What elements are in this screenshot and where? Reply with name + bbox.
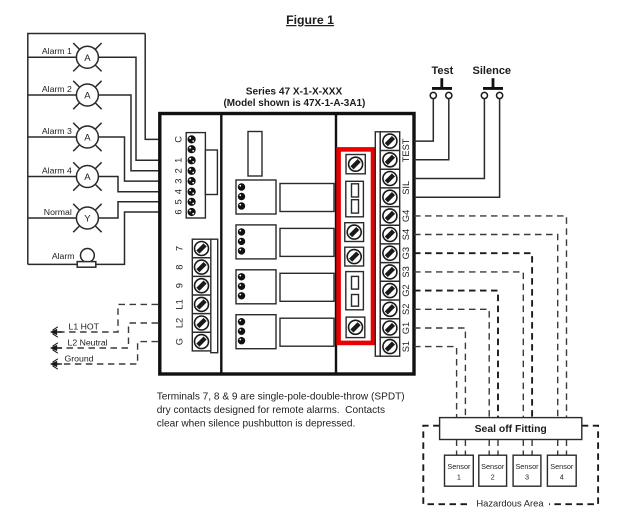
wire alarm3 to terminal 3 — [98, 137, 160, 181]
wire bus top and left — [28, 34, 145, 265]
svg-text:G: G — [175, 338, 185, 345]
panel divider right — [335, 114, 337, 375]
svg-text:Alarm 2: Alarm 2 — [42, 84, 72, 94]
svg-text:L1: L1 — [175, 299, 185, 309]
svg-text:Test: Test — [431, 65, 453, 77]
svg-text:G4: G4 — [401, 210, 411, 222]
screws TEST-S1 — [383, 134, 397, 354]
svg-text:TEST: TEST — [401, 138, 411, 162]
wire S4 dashed — [414, 235, 558, 418]
panel divider left — [220, 114, 222, 375]
fuse holder screw mid1 — [345, 223, 364, 242]
wire alarm2 feed — [28, 94, 77, 96]
svg-text:A: A — [84, 133, 91, 144]
jumper block upper — [346, 181, 364, 217]
svg-text:8: 8 — [175, 265, 185, 270]
svg-text:Terminals 7, 8 & 9 are single-: Terminals 7, 8 & 9 are single-pole-doubl… — [157, 392, 405, 403]
sensor 2 — [479, 455, 507, 486]
arrow ground — [50, 359, 62, 369]
wire sil1 — [414, 99, 484, 179]
svg-text:Sensor: Sensor — [447, 462, 471, 471]
svg-text:2: 2 — [491, 473, 495, 482]
title Series 47 — [223, 87, 365, 109]
screws C 1-6 — [188, 135, 196, 216]
label Ground — [65, 354, 94, 364]
wire normal feed — [28, 217, 77, 219]
jumper block lower — [346, 272, 364, 310]
svg-text:L1 HOT: L1 HOT — [69, 322, 100, 332]
svg-text:Sensor: Sensor — [550, 462, 574, 471]
wire alarm1 to terminal 1 — [98, 57, 160, 160]
svg-text:Seal off Fitting: Seal off Fitting — [475, 424, 547, 435]
wire test1 — [414, 99, 433, 142]
svg-text:A: A — [84, 172, 91, 183]
svg-text:5: 5 — [174, 199, 184, 204]
svg-text:3: 3 — [525, 473, 529, 482]
relay K3 — [236, 270, 334, 304]
screws 7-G — [195, 242, 209, 349]
relay K1 — [236, 180, 334, 214]
svg-text:4: 4 — [560, 473, 564, 482]
connector bracket — [205, 150, 217, 195]
wire G2 dashed — [414, 291, 498, 418]
relay K4 — [236, 315, 334, 349]
labels 7 8 9 L1 L2 G — [175, 246, 185, 345]
hazardous area boundary — [423, 426, 598, 505]
svg-text:SIL: SIL — [401, 181, 411, 195]
svg-text:Ground: Ground — [65, 354, 94, 364]
fuse holder screw mid2 — [345, 247, 364, 266]
panel enclosure — [160, 114, 414, 375]
svg-text:Y: Y — [84, 214, 91, 225]
svg-text:Alarm 4: Alarm 4 — [42, 165, 72, 175]
wire L1 dashed — [53, 304, 158, 332]
svg-text:Alarm 3: Alarm 3 — [42, 126, 72, 136]
svg-text:S4: S4 — [401, 229, 411, 240]
wire G4 dashed — [414, 216, 567, 418]
svg-text:Hazardous Area: Hazardous Area — [476, 498, 544, 509]
wire ground dashed — [53, 342, 158, 364]
label L2 Neutral — [68, 338, 108, 348]
sensor drop wires — [457, 440, 567, 456]
svg-text:G1: G1 — [401, 322, 411, 334]
lamp alarm 4 — [42, 162, 102, 190]
svg-text:S2: S2 — [401, 304, 411, 315]
svg-text:(Model shown is 47X-1-A-3A1): (Model shown is 47X-1-A-3A1) — [223, 98, 365, 109]
wire alarm4 to terminal 4 — [98, 177, 160, 192]
wire sil2 — [414, 99, 500, 198]
svg-text:9: 9 — [175, 283, 185, 288]
svg-text:Sensor: Sensor — [515, 462, 539, 471]
svg-text:L2 Neutral: L2 Neutral — [68, 338, 108, 348]
wire L2 dashed — [53, 323, 158, 348]
svg-text:G2: G2 — [401, 284, 411, 296]
svg-text:2: 2 — [174, 168, 184, 173]
wire S2 dashed — [414, 309, 489, 417]
arrow L1 — [50, 327, 62, 337]
pushbutton Silence — [473, 65, 512, 99]
svg-text:4: 4 — [174, 189, 184, 194]
fuse holder screw top — [346, 155, 365, 174]
component block top — [248, 132, 262, 177]
labels TEST SIL G4-S1 — [401, 138, 411, 352]
svg-text:Alarm: Alarm — [52, 251, 75, 261]
svg-text:A: A — [84, 53, 91, 64]
svg-text:Series 47 X-1-X-XXX: Series 47 X-1-X-XXX — [246, 87, 343, 98]
wire S1 dashed — [414, 347, 457, 418]
red highlight box — [339, 149, 373, 343]
wire alarm2 to terminal 2 — [98, 95, 160, 171]
wire alarm4 feed — [28, 176, 77, 178]
svg-text:clear when silence pushbutton: clear when silence pushbutton is depress… — [157, 418, 356, 429]
svg-text:Silence: Silence — [473, 65, 512, 77]
relay K2 — [236, 225, 334, 259]
note text — [157, 392, 405, 430]
fuse holder screw bottom — [346, 317, 365, 338]
svg-text:Alarm 1: Alarm 1 — [42, 46, 72, 56]
bell alarm horn — [52, 249, 96, 268]
svg-text:6: 6 — [174, 209, 184, 214]
lamp alarm 1 — [42, 43, 102, 71]
label hazardous area — [476, 498, 544, 509]
svg-text:L2: L2 — [175, 318, 185, 328]
arrow L2 — [50, 343, 62, 353]
svg-text:Figure 1: Figure 1 — [286, 13, 334, 27]
title Figure 1 — [286, 13, 334, 27]
wire test2 — [414, 99, 449, 160]
svg-text:S3: S3 — [401, 266, 411, 277]
svg-text:dry contacts designed for remo: dry contacts designed for remote alarms.… — [157, 405, 385, 416]
terminal strip 7-G backplate — [192, 239, 217, 353]
wire alarm3 feed — [28, 136, 77, 138]
sensor 3 — [513, 455, 541, 486]
sensor 1 — [445, 455, 474, 486]
sensor 4 — [547, 455, 576, 486]
svg-text:1: 1 — [174, 158, 184, 163]
svg-text:Normal: Normal — [44, 207, 72, 217]
wire alarm1 feed — [28, 56, 77, 58]
wire normal to terminal 5 — [98, 202, 160, 218]
wire bell to terminal 6 — [28, 212, 160, 264]
svg-text:S1: S1 — [401, 341, 411, 352]
svg-text:C: C — [174, 136, 184, 143]
wire G1 dashed — [414, 328, 465, 418]
lamp normal — [44, 204, 102, 232]
svg-text:3: 3 — [174, 179, 184, 184]
lamp alarm 2 — [42, 81, 102, 109]
wire C feed — [145, 34, 160, 140]
lamp alarm 3 — [42, 123, 102, 151]
wire G3 dashed — [414, 253, 532, 417]
svg-text:Sensor: Sensor — [481, 462, 505, 471]
svg-text:G3: G3 — [401, 247, 411, 259]
wire S3 dashed — [414, 272, 523, 418]
labels C 1-6 — [174, 136, 184, 215]
svg-text:1: 1 — [457, 473, 461, 482]
pushbutton Test — [430, 65, 453, 99]
seal off fitting box — [440, 418, 582, 440]
terminal strip C 1-6 — [186, 133, 205, 218]
svg-text:7: 7 — [175, 246, 185, 251]
svg-text:A: A — [84, 91, 91, 102]
label L1 HOT — [69, 322, 100, 332]
terminal strip TEST-S1 backplate — [375, 132, 399, 356]
